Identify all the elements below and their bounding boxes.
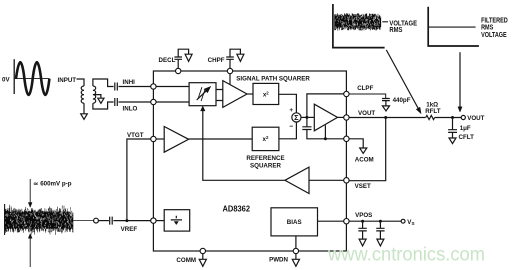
svg-text:AD8362: AD8362 (223, 203, 251, 213)
svg-text:x2: x2 (263, 135, 269, 143)
svg-text:x2: x2 (263, 90, 269, 98)
svg-text:RMS: RMS (481, 25, 493, 32)
svg-text:INLO: INLO (123, 105, 138, 112)
svg-text:VSET: VSET (355, 183, 371, 190)
svg-text:RMS: RMS (389, 27, 402, 34)
svg-text:BIAS: BIAS (287, 219, 302, 226)
svg-text:1μF: 1μF (460, 125, 471, 132)
svg-text:0V: 0V (2, 76, 10, 83)
svg-text:PWDN: PWDN (269, 257, 288, 264)
svg-text:VS: VS (407, 219, 414, 226)
svg-text:ACOM: ACOM (355, 156, 374, 163)
svg-text:FILTERED: FILTERED (481, 17, 508, 24)
svg-text:VREF: VREF (121, 226, 138, 233)
svg-text:www.cntronics.com: www.cntronics.com (327, 244, 485, 265)
svg-text:VPOS: VPOS (355, 212, 372, 219)
svg-text:Σ: Σ (294, 113, 299, 122)
svg-text:VOLTAGE: VOLTAGE (481, 32, 507, 39)
svg-text:SQUARER: SQUARER (250, 162, 281, 169)
svg-text:RFLT: RFLT (425, 108, 441, 115)
svg-text:DECL: DECL (159, 57, 176, 64)
svg-text:VTGT: VTGT (127, 132, 144, 139)
svg-text:REFERENCE: REFERENCE (246, 155, 284, 162)
svg-text:VOUT: VOUT (358, 110, 375, 117)
svg-text:INHI: INHI (123, 79, 136, 86)
svg-text:CHPF: CHPF (208, 57, 225, 64)
svg-text:+: + (289, 107, 293, 114)
svg-text:INPUT: INPUT (58, 77, 77, 84)
svg-text:VOUT: VOUT (467, 115, 484, 122)
svg-text:CLPF: CLPF (357, 85, 373, 92)
svg-text:SIGNAL PATH SQUARER: SIGNAL PATH SQUARER (236, 75, 310, 82)
svg-text:CFLT: CFLT (459, 134, 475, 141)
svg-text:440pF: 440pF (393, 97, 411, 104)
svg-text:−: − (289, 124, 293, 131)
svg-text:COMM: COMM (176, 257, 196, 264)
svg-text:≃ 600mV p-p: ≃ 600mV p-p (33, 180, 71, 187)
